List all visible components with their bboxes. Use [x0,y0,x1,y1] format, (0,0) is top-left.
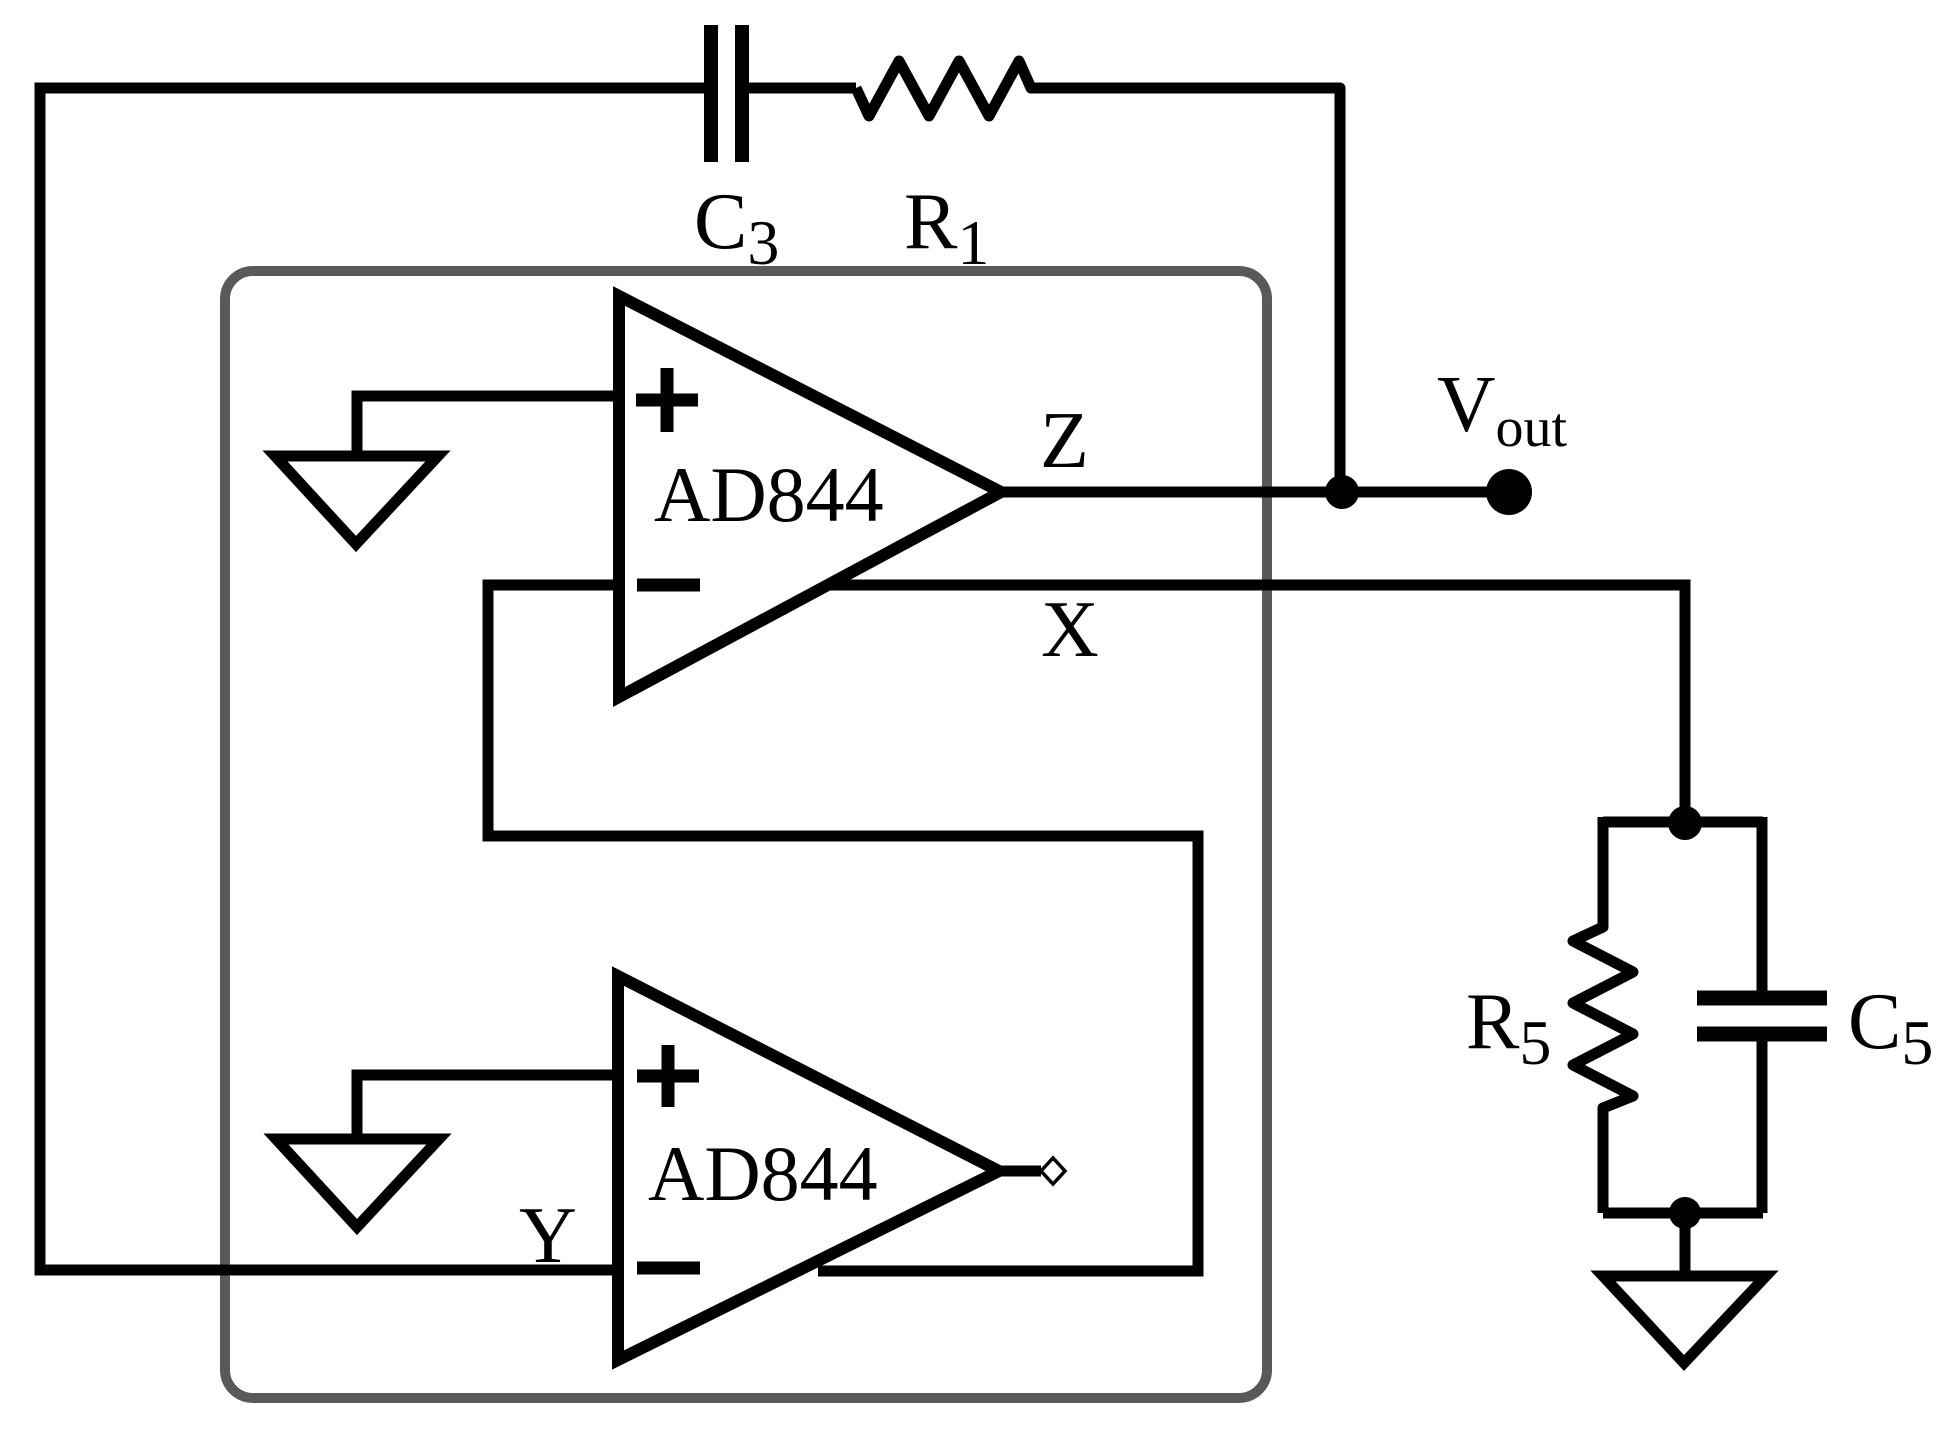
wire U1 non-inverting input to ground [357,396,617,453]
op-amp U2 AD844 triangle body [618,976,999,1360]
svg-text:Y: Y [519,1192,577,1280]
svg-text:Z: Z [1040,397,1089,485]
wire to ground [1680,1213,1691,1275]
U2 minus symbol [637,1262,700,1275]
wire from C3 left plate around left side to U2 inverting input Y [40,88,704,1270]
U2 output diamond terminal [1041,1158,1065,1184]
svg-text:AD844: AD844 [648,1130,878,1217]
capacitor C5 [1697,998,1827,1034]
op-amp U1 AD844 triangle body [619,296,1001,697]
wire Z output to Vout [1001,487,1509,498]
svg-text:C5: C5 [1848,978,1933,1078]
junction node X to R5C5 [1668,806,1702,840]
U1 plus symbol [636,368,698,432]
wire C3 to R1 [749,83,856,94]
svg-text:X: X [1041,586,1099,674]
Vout terminal dot [1486,469,1532,515]
wire C5 bottom lead [1757,1041,1768,1213]
wire from U2 X terminal up through middle to U1 inverting input [488,585,1198,1271]
R5C5 network bottom rail [1603,1208,1763,1219]
wire U2 output [999,1166,1041,1177]
junction node on Z line [1325,475,1359,509]
R5C5 network top rail [1603,817,1763,828]
svg-text:R1: R1 [904,178,989,278]
U1 minus symbol [637,579,700,592]
svg-text:C3: C3 [694,178,779,278]
svg-text:AD844: AD844 [654,451,884,538]
resistor R5 with leads [1573,817,1633,1213]
ground (R5C5) [1603,1276,1766,1363]
wire C5 top lead [1757,817,1768,991]
svg-text:Vout: Vout [1437,359,1568,459]
wire X output to R5C5 network [830,585,1685,824]
AD844 block boundary box [225,271,1267,1398]
junction node R5C5 to ground [1669,1197,1701,1229]
capacitor C3 [711,25,742,162]
ground (U1 non-inverting input) [275,456,438,544]
U2 plus symbol [637,1045,699,1107]
ground (U2 non-inverting input) [276,1139,439,1227]
resistor R1 [856,61,1340,492]
svg-text:R5: R5 [1466,978,1551,1078]
wire U2 non-inverting input to ground [357,1075,618,1136]
